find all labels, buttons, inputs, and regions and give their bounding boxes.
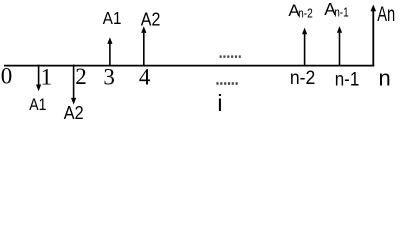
up arrow at n-2 xyxy=(302,28,307,66)
svg-text:n: n xyxy=(379,65,391,90)
ellipsis above line xyxy=(220,55,241,58)
svg-text:4: 4 xyxy=(139,64,151,89)
svg-text:A2: A2 xyxy=(64,103,84,123)
up arrow at n-1 xyxy=(337,26,342,65)
up arrow at 3 xyxy=(107,37,112,65)
svg-text:A1: A1 xyxy=(29,95,46,114)
svg-text:i: i xyxy=(217,90,222,116)
svg-text:3: 3 xyxy=(103,65,115,90)
svg-text:1: 1 xyxy=(41,64,53,89)
down arrow at 1 xyxy=(36,65,41,92)
up arrow at n (axis end) xyxy=(371,5,377,67)
svg-text:2: 2 xyxy=(75,64,87,89)
ellipsis below line xyxy=(216,82,237,85)
svg-text:n-1: n-1 xyxy=(335,69,360,90)
up arrow at 4 xyxy=(141,26,146,65)
svg-text:0: 0 xyxy=(1,64,13,89)
svg-text:A2: A2 xyxy=(141,9,161,29)
svg-text:n-2: n-2 xyxy=(298,6,313,20)
svg-text:n-2: n-2 xyxy=(290,68,315,89)
svg-text:n-1: n-1 xyxy=(334,6,349,20)
down arrow at 2 xyxy=(71,65,76,105)
axis line xyxy=(4,65,374,67)
svg-text:A1: A1 xyxy=(103,8,122,28)
svg-text:An: An xyxy=(377,2,395,26)
